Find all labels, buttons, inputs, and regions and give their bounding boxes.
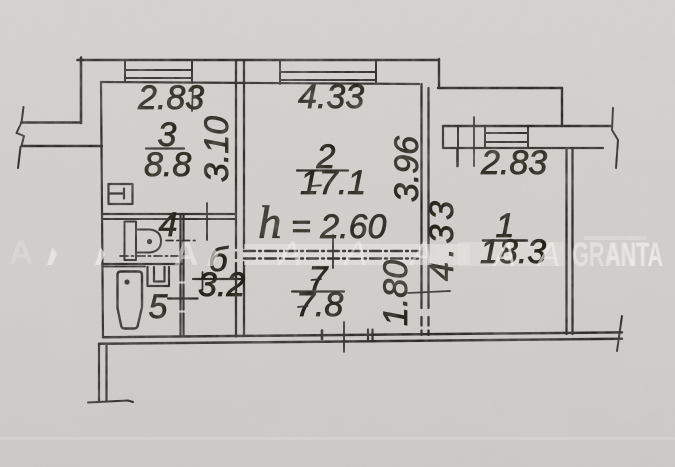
wall room3 bottom [102, 213, 236, 215]
door dimension tick bath [168, 297, 198, 299]
tick on bottom wall [343, 322, 345, 352]
room 7 underline [292, 290, 344, 292]
toilet tank [125, 222, 137, 261]
washbasin [148, 267, 170, 286]
wall bottom (double) [103, 332, 622, 337]
window W3 room 1 [458, 126, 528, 148]
wall leg below (double) [99, 344, 107, 401]
door jamb mark on bottom wall left [321, 331, 324, 340]
wall left inner (runs to bottom) [101, 82, 103, 338]
wall top-right step down [438, 59, 440, 88]
wall room1 right (double) [567, 148, 573, 334]
wall room1 left stub [456, 148, 459, 166]
watermark small line above [584, 236, 646, 240]
watermark band behind partition [244, 244, 470, 265]
watermark fragment left 1 [47, 247, 57, 265]
break mark bottom-right [617, 316, 622, 351]
paper crease line bottom [0, 437, 675, 440]
watermark letters middle [277, 235, 434, 273]
tick on partition [332, 235, 334, 268]
wall room1 band inner [443, 147, 603, 149]
crossbar of 7 in 17.1 [312, 184, 321, 187]
door ticks on bottom wall [367, 330, 369, 342]
dashed partition under toilet [120, 255, 184, 257]
dim tick 2.83 top [192, 86, 193, 111]
room 2 underline [297, 169, 348, 171]
crossbar of 7 in 7.8 [298, 306, 308, 307]
vent box room3 [109, 184, 133, 204]
wall room2 right (double) [422, 84, 429, 335]
dim extension tick 2.83 room1 [473, 117, 475, 166]
tick 3.2 [202, 272, 204, 290]
break mark right of room1 band [612, 108, 618, 168]
door swing dashes toilet [166, 240, 199, 242]
room 1 underline [483, 239, 527, 241]
tick on room3 bottom wall [206, 203, 208, 240]
watermark band behind room1 label [458, 242, 564, 266]
break stroke at leg end [88, 401, 133, 403]
wall toilet bottom [103, 263, 183, 265]
room 6 underline [193, 278, 244, 280]
wall top inner [101, 82, 419, 84]
wall toilet right (double) [181, 214, 184, 337]
break up-tick upper-left [22, 107, 24, 123]
wall left outer [80, 58, 83, 124]
room 3 underline [146, 147, 184, 149]
wall room1 band outer [443, 125, 612, 127]
watermark letters right [492, 236, 561, 274]
break down-tick lower-left [18, 147, 21, 168]
balcony line left upper [21, 121, 81, 123]
toilet drain dot [147, 239, 152, 244]
wall balcony top of room 1 [438, 87, 562, 89]
bathtub [118, 272, 143, 329]
watermark fragment near room 6 [207, 247, 219, 266]
wall top outer [78, 59, 440, 62]
watermark fragment left 2 [95, 247, 105, 265]
toilet bowl [136, 230, 161, 253]
wall balcony right of room 1 [561, 88, 563, 126]
dim tick 1.80 [408, 291, 450, 293]
wall between room3 and room2 (double) [236, 60, 244, 337]
crossbar of 7 [312, 279, 322, 280]
wall room1 band left closure [442, 126, 444, 148]
dashed partition lower line [244, 257, 418, 259]
break zigzag left [17, 124, 25, 147]
bathtub drain dot [124, 279, 129, 284]
balcony line left lower [22, 145, 103, 147]
window W1 room 3 [125, 60, 192, 83]
window W2 room 2 [280, 60, 376, 84]
dashed partition upper line [244, 250, 418, 252]
